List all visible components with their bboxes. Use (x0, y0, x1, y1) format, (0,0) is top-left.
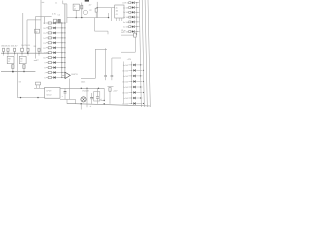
wire into Q2 (86, 88, 88, 96)
svg-text:4x 1k5: 4x 1k5 (123, 65, 128, 67)
wire horizontal y97.6 (18, 97, 45, 99)
svg-text:4.7k: 4.7k (52, 14, 56, 16)
junction dot row (27, 52, 29, 54)
svg-text:2x: 2x (55, 3, 57, 5)
svg-text:3x 1k5: 3x 1k5 (123, 76, 128, 78)
wire vertical long x35.4 (34, 17, 36, 59)
svg-text:4x 10k: 4x 10k (123, 7, 128, 9)
IC pin stub 2 (118, 18, 120, 21)
switch S2 box (35, 29, 40, 33)
svg-text:2x 10k: 2x 10k (123, 27, 128, 29)
relay K1 box (7, 56, 14, 63)
svg-text:2x 1k5: 2x 1k5 (123, 87, 128, 89)
svg-text:10k 22k 47k: 10k 22k 47k (21, 45, 30, 47)
bus vertical right 2 (142, 0, 144, 107)
wire horizontal y49.3 (95, 48, 107, 50)
wire corner up at x67 (66, 99, 68, 103)
capacitor C6 (104, 75, 107, 77)
relay K2 box (19, 56, 26, 63)
junction dot y88.3 a (81, 88, 82, 89)
capacitor C8 (90, 96, 93, 98)
svg-text:L2: L2 (20, 61, 22, 63)
svg-text:4x: 4x (116, 8, 118, 10)
wire stub top (42, 1, 45, 3)
resistor R13 (134, 33, 137, 37)
wire x135.3 (134, 37, 136, 52)
wire y99.4 (60, 98, 76, 100)
bus vertical x64.9 (64, 4, 66, 78)
wire vertical to R3 (26, 20, 28, 49)
IC pin stub (116, 18, 118, 21)
svg-text:41: 41 (116, 14, 118, 16)
wire vertical x17.5 long (17, 53, 19, 97)
bus horizontal y53.2 (1, 52, 49, 54)
wire K2 to bus (23, 64, 25, 72)
wire horizontal y31.1 (95, 30, 109, 32)
wire vertical to R2 (22, 13, 24, 49)
junction dot (108, 17, 109, 18)
wire y86.4 (108, 85, 114, 87)
svg-text:4x 10k: 4x 10k (123, 22, 128, 24)
svg-text:4k7: 4k7 (121, 32, 124, 34)
svg-text:S2: S2 (35, 31, 37, 33)
bus horizontal y71.6 (1, 71, 35, 73)
rail vertical x123.3 (122, 62, 124, 104)
bus vertical x61.8 (61, 23, 63, 78)
bus vertical x136.8 top (136, 3, 138, 35)
transistor Q1 (65, 72, 70, 78)
wire y52.2 (121, 51, 135, 53)
svg-text:LDR 1k: LDR 1k (122, 3, 128, 5)
wire down to bus (75, 99, 77, 103)
svg-text:+12V: +12V (113, 90, 118, 92)
svg-text:y1: y1 (74, 9, 76, 11)
wire horizontal y17.6 (67, 17, 109, 19)
bus horizontal bottom sloped (67, 103, 151, 106)
crystal leg (35, 85, 37, 88)
wire vertical x44.6 into ladder (44, 17, 46, 24)
junction dot y88.3 c (98, 88, 99, 89)
transistor Q2 (81, 97, 86, 102)
wire K1 to bus (12, 64, 14, 72)
resistor R5 (27, 48, 29, 51)
junction dot bus x81.2 (80, 103, 82, 105)
junction dot bus (12, 71, 14, 73)
wire R11 down (95, 12, 97, 18)
wire Q1 down (68, 79, 70, 85)
junction dot x97.2 (97, 7, 98, 8)
wire vertical x95.3 (94, 49, 96, 78)
wire y88.3 top rail of bottom module (60, 87, 104, 89)
component cluster above ladder (54, 19, 57, 23)
wire into regulator (34, 87, 45, 89)
wire vertical x105.6 (105, 48, 107, 75)
junction dot (81, 17, 82, 18)
svg-text:LP29: LP29 (46, 91, 52, 93)
wire stub x108.5 (108, 13, 110, 18)
svg-text:C2: C2 (58, 14, 60, 16)
capacitor C9 (96, 96, 99, 98)
svg-text:1x 10k: 1x 10k (123, 17, 128, 19)
transistor Q3 circle (83, 10, 87, 14)
wire Q2 to bus and below (86, 96, 88, 107)
tick on x35.4 (34, 60, 37, 62)
wire vertical net A x41 (40, 0, 42, 53)
wire horizontal y20 (27, 19, 41, 21)
component box around C9 (94, 92, 100, 101)
junction dot (20, 97, 21, 98)
svg-text:1N4148 2k2 100k 4k7: 1N4148 2k2 100k 4k7 (1, 46, 17, 48)
junction dot (104, 100, 105, 101)
capacitor C4 (21, 48, 24, 51)
wire vertical x111.5 (111, 8, 113, 21)
wire below bus x81.2 (80, 104, 82, 110)
wire vertical x66.9 (66, 4, 68, 23)
wire vertical x111.9 (111, 58, 113, 75)
bus vertical x131.7 (131, 62, 133, 104)
svg-text:1x 1k5: 1x 1k5 (123, 98, 128, 100)
wire x104.2 (103, 88, 105, 100)
diode D1 (2, 48, 4, 51)
bus vertical right 4 (148, 0, 150, 107)
resistor R8 under K1 (12, 65, 14, 69)
resistor R12 (109, 88, 111, 92)
wire y100.5 (101, 100, 105, 102)
junction dot bus x104.2 (104, 103, 105, 104)
svg-text:L1: L1 (8, 61, 10, 63)
regulator U2 box (45, 87, 60, 98)
resistor R3 (14, 48, 16, 51)
svg-text:+12V: +12V (127, 59, 132, 61)
wire K3 to y17.6 (75, 10, 77, 17)
wire horizontal y16.6 (35, 16, 44, 18)
svg-text:2x 10k: 2x 10k (123, 12, 128, 14)
wire up to edge x62.8 (62, 1, 64, 4)
wire y35.1 (121, 34, 134, 36)
wire vertical x97.2 (96, 2, 98, 18)
resistor R9 under K2 (23, 65, 25, 69)
bus vertical right 3 (145, 0, 147, 107)
svg-text:1N4148: 1N4148 (82, 91, 88, 93)
resistor R7 (38, 48, 40, 51)
junction dot (37, 97, 38, 98)
wire x110 to bus (109, 91, 111, 104)
junction dot y88.3 b (86, 88, 87, 89)
svg-text:2k2: 2k2 (34, 46, 37, 48)
wire x69.4 (68, 85, 70, 100)
wire to IC2 (97, 7, 115, 9)
IC pin stub 3 (121, 18, 123, 21)
wire vertical x94.5 (94, 18, 96, 32)
resistor R10 top (81, 3, 83, 18)
capacitor C5 (64, 88, 66, 91)
svg-text:BUZ11: BUZ11 (72, 74, 79, 76)
junction dot K3 (76, 17, 77, 18)
wire stub y16.5 (45, 16, 52, 18)
svg-text:LD 1k5: LD 1k5 (122, 103, 128, 105)
wire top connect y3.9 (63, 3, 67, 5)
svg-text:50CZ: 50CZ (46, 94, 52, 96)
crystal leg 2 (39, 85, 41, 88)
wire stub down (107, 31, 109, 34)
wire horizontal y58 (112, 57, 121, 59)
wire horizontal y78.4 (81, 77, 95, 79)
capacitor C7 (111, 75, 114, 77)
crystal X1 (36, 82, 41, 85)
relay K3 box (73, 4, 79, 10)
resistor R11 (95, 8, 97, 12)
resistor R2 (7, 48, 9, 51)
IC U3 box (115, 5, 124, 18)
bus vertical right 1 (139, 0, 141, 107)
svg-text:100n: 100n (81, 81, 85, 83)
junction dot bus2 (23, 71, 24, 72)
